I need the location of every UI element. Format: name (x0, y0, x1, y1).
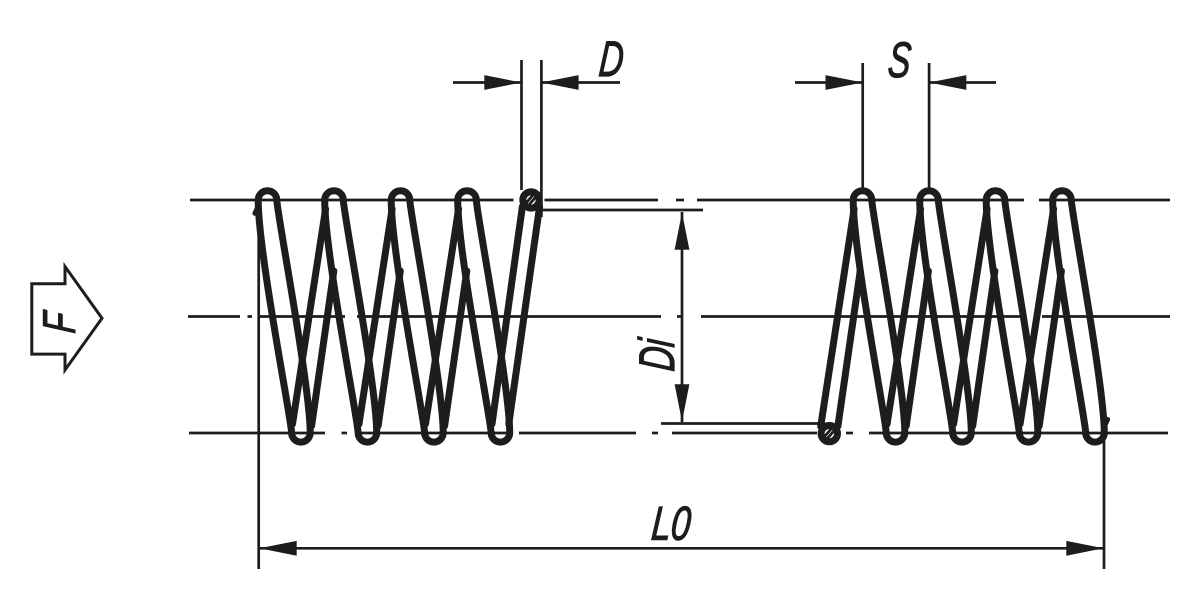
left spring rising back wire 2 (359, 209, 392, 424)
left spring coil loop 1 (258, 191, 310, 442)
force arrow F outline (32, 267, 102, 371)
label F (43, 309, 75, 333)
left spring coil loop 4 (458, 191, 510, 442)
center line middle, segment 3 (701, 315, 1026, 318)
center line bottom, segment 5 (869, 432, 1168, 435)
wire cross-section circle, left spring cut end (523, 192, 539, 208)
extension line D right (540, 60, 543, 217)
center line bottom, segment 2 (360, 432, 513, 435)
arrowhead D right (541, 75, 578, 90)
right spring lower back wire 1 (906, 271, 928, 426)
right spring lower back wire 3 (1039, 271, 1061, 426)
reference line Di bottom (661, 422, 819, 425)
arrowhead L0 right (1066, 541, 1103, 556)
center line top, segment right of cut circle (545, 199, 659, 202)
right spring coil loop 2 (920, 191, 972, 442)
arrowhead Di top (675, 213, 690, 250)
left spring lower back wire 3 (445, 271, 467, 426)
right spring coil loop 1 (853, 191, 905, 442)
arrowhead D left (484, 75, 521, 90)
dimension line D right part (541, 81, 620, 84)
center line top, dot (676, 199, 684, 202)
right spring coil loop 4 (1053, 191, 1105, 442)
center line top, left segment (190, 199, 514, 202)
reference line Di top (539, 209, 703, 212)
dimension line S right part (929, 81, 996, 84)
extension line S left (861, 63, 864, 194)
label L0 (652, 507, 692, 541)
label Di (638, 336, 674, 371)
left spring rising back wire 4 (up to cut end) (492, 207, 522, 425)
label S (888, 42, 912, 77)
dimension line L0 (259, 547, 1104, 550)
dimension line Di vertical (681, 212, 684, 422)
right spring rising back wire 2 (954, 209, 988, 424)
wire end stub, left spring top-left (255, 209, 257, 213)
left spring rising back wire 1 (293, 209, 326, 424)
center line bottom, dot 2 (652, 432, 658, 435)
left spring coil loop 2 (325, 191, 377, 442)
right spring lower back wire 2 (973, 271, 995, 426)
extension line L0 left (257, 196, 260, 569)
right spring rising back wire 1 (887, 209, 921, 424)
wire cross-section circle, right spring cut end (821, 425, 837, 441)
center line top, right segment (697, 199, 1024, 202)
center line middle, dot 2 (677, 315, 683, 318)
center line middle, far right segment (1042, 315, 1170, 318)
center line bottom, dot 3 (846, 432, 853, 435)
extension line L0 right (1103, 436, 1106, 569)
center line middle, segment 2b (357, 315, 661, 318)
left spring lower back wire 2 (378, 271, 400, 426)
right spring rising back wire 3 (1020, 209, 1054, 424)
left spring lower back wire 1 (312, 271, 334, 426)
center line bottom, dot 1 (342, 432, 348, 435)
arrowhead Di bottom (675, 384, 690, 421)
center line middle, segment 2 (260, 315, 346, 318)
center line bottom, segment 1 (189, 432, 325, 435)
arrowhead L0 left (260, 541, 297, 556)
extension line D left (520, 60, 523, 190)
center line middle, segment 1 (188, 315, 240, 318)
wire end stub, right spring bottom-right (1106, 419, 1108, 423)
right spring lower back wire 0 (down to cut end) (838, 271, 860, 426)
left spring coil loop 3 (391, 191, 443, 442)
center line bottom, segment 4 (672, 432, 817, 435)
label D (599, 42, 624, 76)
arrowhead S left (826, 75, 863, 90)
right spring coil loop 3 (986, 191, 1038, 442)
dimension line S left part (795, 81, 863, 84)
center line bottom, segment 3 (519, 432, 636, 435)
extension line S right (928, 63, 931, 194)
center line middle, dot 1 (248, 315, 253, 318)
right spring rising back wire from cut end up to first top loop (821, 209, 854, 426)
left spring rising back wire 3 (426, 209, 459, 424)
center line top, far right segment (1039, 199, 1170, 202)
dimension line D left part (453, 81, 522, 84)
left spring end taper wire (cut end down to last bottom loop) (509, 207, 540, 425)
arrowhead S right (929, 75, 966, 90)
